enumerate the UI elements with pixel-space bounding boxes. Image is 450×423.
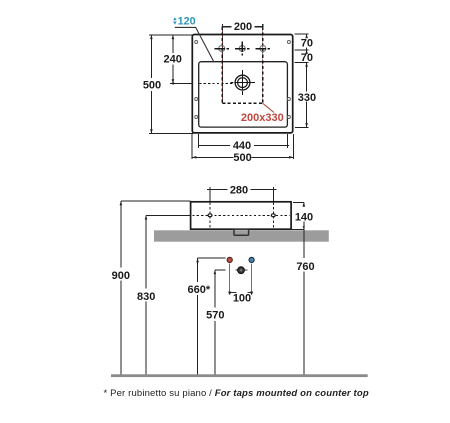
svg-text:570: 570 [206,310,224,322]
svg-text:120: 120 [178,16,196,28]
svg-text:200x330: 200x330 [241,112,284,124]
svg-text:240: 240 [164,54,182,66]
svg-text:140: 140 [295,211,313,223]
svg-text:500: 500 [143,80,161,92]
svg-text:* Per rubinetto su piano / For: * Per rubinetto su piano / For taps moun… [104,388,369,399]
svg-text:200: 200 [234,21,252,33]
svg-text:70: 70 [301,38,313,50]
svg-text:830: 830 [137,291,155,303]
svg-text:330: 330 [298,92,316,104]
svg-text:660*: 660* [187,284,210,296]
svg-text:100: 100 [233,293,251,305]
svg-text:280: 280 [230,184,248,196]
svg-text:760: 760 [296,261,314,273]
svg-text:900: 900 [112,270,130,282]
svg-text:70: 70 [301,52,313,64]
svg-text:440: 440 [233,140,251,152]
svg-text:500: 500 [233,152,251,164]
